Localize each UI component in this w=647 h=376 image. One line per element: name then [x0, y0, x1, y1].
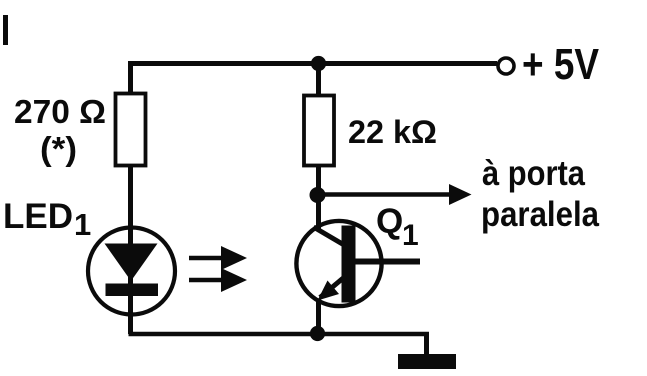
svg-text:270 Ω: 270 Ω — [14, 93, 106, 130]
svg-text:LED: LED — [3, 197, 73, 236]
wire: resistor 270 to LED1 — [128, 166, 133, 335]
label Q1 — [376, 202, 419, 252]
wire: Q1 emitter down to bottom rail — [316, 299, 321, 334]
node: bottom rail junction — [310, 326, 325, 341]
resistor 22 kohm — [304, 96, 334, 166]
wire: output node down to Q1 — [316, 195, 321, 230]
light arrows from LED1 to Q1 — [189, 246, 247, 292]
svg-text:22 kΩ: 22 kΩ — [348, 114, 437, 150]
node: top rail junction — [311, 56, 326, 71]
wire: +5V top rail — [129, 61, 498, 66]
ground — [398, 354, 456, 369]
svg-text:Q: Q — [376, 202, 403, 241]
wire: rail corner down to ground — [424, 332, 429, 356]
wire: top node down to resistor 22k — [316, 61, 321, 97]
wire arrow: output to parallel port — [318, 184, 472, 205]
transistor Q1 phototransistor — [296, 221, 420, 306]
wire: bottom rail — [129, 332, 430, 337]
svg-text:à porta: à porta — [482, 154, 585, 193]
svg-text:(*): (*) — [40, 130, 77, 167]
resistor 270 ohm — [116, 94, 146, 166]
LED LED1 — [88, 228, 175, 315]
svg-text:1: 1 — [402, 219, 419, 252]
label a porta paralela — [481, 154, 599, 234]
svg-text:+ 5V: + 5V — [522, 40, 600, 89]
svg-text:1: 1 — [74, 207, 91, 242]
terminal: +5V open circle — [498, 58, 514, 74]
wire: resistor 22k down to output node — [316, 164, 321, 197]
svg-text:paralela: paralela — [481, 195, 599, 234]
node: output junction — [310, 187, 326, 203]
label LED1 — [3, 197, 91, 242]
wire: rail down to resistor 270 — [128, 61, 133, 95]
